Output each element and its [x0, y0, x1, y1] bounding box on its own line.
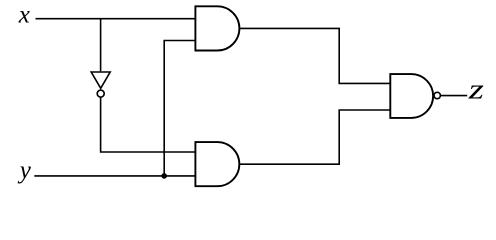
AND gate U3 (bottom) [195, 142, 239, 186]
wire U3 output to U4 bottom input [239, 110, 390, 164]
wire inverter output to U3 top input [101, 97, 196, 152]
NAND gate U4 [390, 74, 433, 118]
wire x input [36, 18, 196, 20]
svg-text:x: x [18, 2, 30, 29]
node A junction dot [161, 173, 167, 179]
wire inverter input drop [100, 19, 102, 71]
NAND U4 bubble [434, 92, 440, 98]
inverter U1 triangle [91, 72, 110, 88]
svg-text:z: z [468, 74, 484, 104]
inverter U1 bubble [97, 90, 104, 97]
wire U2 output to U4 top input [239, 28, 390, 83]
wire y input [34, 175, 195, 177]
wire z output [440, 95, 467, 97]
svg-text:y: y [17, 157, 32, 184]
AND gate U2 (top) [195, 6, 239, 50]
wire node A riser to U2 bottom input [164, 41, 195, 176]
